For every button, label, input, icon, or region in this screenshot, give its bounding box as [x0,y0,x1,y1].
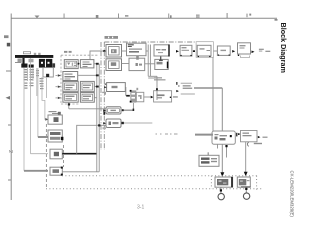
svg-text:CX-LEM220/LEM320(E): CX-LEM220/LEM320(E) [290,171,295,218]
svg-text:Block Diagram: Block Diagram [279,23,288,73]
svg-text:3-1: 3-1 [137,205,144,211]
svg-text:2: 2 [7,150,13,153]
